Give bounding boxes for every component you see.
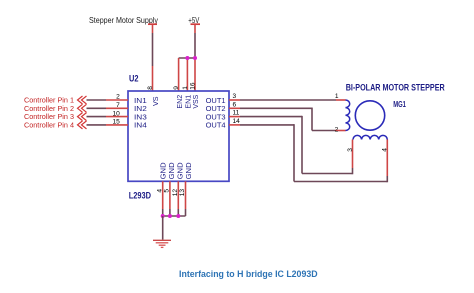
svg-text:9: 9 (173, 86, 180, 90)
svg-text:1: 1 (182, 86, 189, 90)
svg-text:3: 3 (233, 93, 237, 100)
wire IN2 (87, 107, 129, 109)
svg-text:6: 6 (233, 101, 237, 108)
wire IN3 (87, 116, 129, 118)
svg-text:Controller Pin 4: Controller Pin 4 (24, 121, 74, 130)
wire OUT4 to motor coil pin 4 (229, 124, 387, 182)
svg-text:MG1: MG1 (393, 99, 406, 109)
IC U2 L293D body (128, 91, 229, 181)
off-page connector chevrons row 1 (78, 96, 87, 104)
junction dot GND 3 (176, 214, 180, 218)
svg-text:GND: GND (178, 162, 185, 179)
wire VS net from Stepper Motor Supply to U2 pin 8 (152, 33, 154, 91)
svg-text:OUT4: OUT4 (206, 121, 226, 130)
svg-text:8: 8 (147, 86, 154, 90)
svg-text:Interfacing to H bridge IC L20: Interfacing to H bridge IC L2093D (179, 269, 318, 280)
wire branch to EN2 pin 9 (178, 58, 180, 91)
svg-text:14: 14 (233, 118, 241, 125)
off-page connector chevrons row 3 (78, 113, 87, 121)
svg-text:U2: U2 (129, 74, 139, 84)
ground symbol (153, 240, 171, 247)
svg-text:11: 11 (233, 110, 240, 117)
svg-text:L293D: L293D (129, 191, 152, 201)
wire GND pin 4 (162, 181, 164, 216)
power symbol Stepper Motor Supply (89, 16, 159, 33)
wire +5V branch horizontal (179, 57, 195, 59)
svg-text:2: 2 (335, 126, 339, 133)
svg-text:IN4: IN4 (134, 121, 147, 130)
wire GND pin 12 (177, 181, 179, 216)
svg-text:BI-POLAR MOTOR STEPPER: BI-POLAR MOTOR STEPPER (346, 82, 445, 92)
junction dot EN1 branch (185, 56, 189, 60)
wire +5V net vertical to VSS pin 16 (194, 33, 196, 91)
wire IN1 (87, 99, 129, 101)
motor coil A (vertical winding) (346, 100, 350, 131)
wire GND pin 13 (185, 181, 187, 216)
junction dot VSS branch (193, 56, 197, 60)
svg-text:GND: GND (186, 162, 193, 179)
svg-text:EN2: EN2 (177, 95, 184, 109)
svg-text:7: 7 (116, 102, 120, 109)
wire OUT2 to motor coil pin 2 (229, 108, 346, 131)
motor body circle MG1 (355, 101, 384, 130)
svg-text:1: 1 (335, 93, 339, 100)
wire branch to EN1 pin 1 (186, 58, 188, 91)
wire to ground symbol (162, 216, 164, 240)
svg-text:VSS: VSS (193, 94, 200, 108)
wire OUT3 to motor coil pin 3 (229, 116, 353, 174)
svg-text:GND: GND (169, 162, 176, 179)
wire GND pin 5 (169, 181, 171, 216)
wire GND bus horizontal (163, 215, 186, 217)
motor coil B (horizontal winding) (353, 135, 387, 139)
svg-text:2: 2 (116, 94, 120, 101)
svg-text:16: 16 (190, 82, 197, 90)
off-page connector chevrons row 2 (78, 104, 87, 112)
power symbol +5V (188, 16, 200, 33)
svg-text:15: 15 (112, 119, 120, 126)
svg-text:GND: GND (161, 162, 168, 179)
svg-text:3: 3 (347, 148, 354, 152)
junction dot GND 2 (168, 214, 172, 218)
svg-text:VS: VS (153, 96, 160, 106)
wire OUT1 to motor coil pin 1 (229, 99, 346, 101)
wire IN4 (87, 124, 129, 126)
junction dot GND 1 (161, 214, 165, 218)
svg-text:EN1: EN1 (186, 95, 193, 109)
svg-text:4: 4 (382, 148, 389, 152)
off-page connector chevrons row 4 (78, 121, 87, 129)
svg-text:10: 10 (112, 110, 120, 117)
